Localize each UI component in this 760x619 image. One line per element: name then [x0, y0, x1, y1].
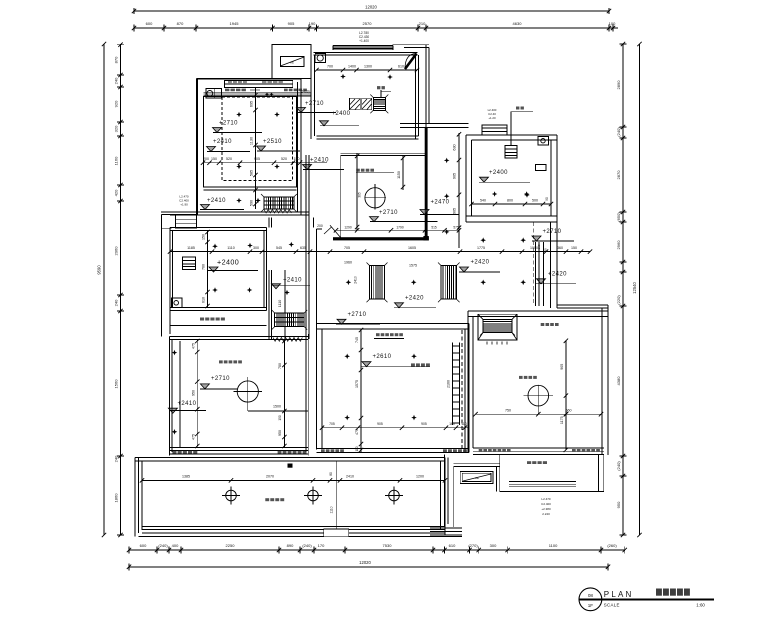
svg-text:1500: 1500 [273, 405, 281, 409]
svg-text:+1.20: +1.20 [488, 116, 496, 120]
svg-text:300: 300 [490, 543, 497, 548]
bottom-right window band [430, 527, 462, 529]
hob label + leader [377, 86, 380, 89]
dim line right overall [639, 44, 641, 535]
wall kitchen bottom [317, 135, 419, 137]
vent unit with diagonal [280, 57, 304, 67]
master room label [519, 376, 523, 379]
bath light markers [492, 191, 498, 197]
svg-text:1560: 1560 [114, 379, 119, 389]
svg-text:1:60: 1:60 [696, 602, 705, 607]
dim line top segments [134, 27, 618, 29]
svg-text:+2410: +2410 [207, 198, 226, 204]
master bottom labels [479, 449, 483, 452]
svg-text:1160: 1160 [114, 156, 119, 165]
svg-text:12020: 12020 [365, 5, 377, 10]
svg-text:745: 745 [355, 337, 359, 343]
master AC label [541, 323, 545, 326]
balcony bottom window [142, 526, 445, 528]
study walls [169, 228, 171, 335]
balcony2 right wall [597, 455, 599, 492]
corner quarter-arc hatch [405, 54, 417, 70]
svg-text:800: 800 [507, 198, 513, 202]
svg-text:7530: 7530 [383, 543, 393, 548]
dining light markers [344, 354, 350, 360]
svg-text:+2410: +2410 [178, 401, 197, 407]
svg-text:170: 170 [318, 543, 325, 548]
svg-text:1110: 1110 [278, 300, 282, 307]
R1 vertical dim [255, 87, 257, 209]
kitchen dark register [373, 98, 385, 111]
svg-text:1200: 1200 [416, 475, 424, 479]
hall room label [356, 169, 360, 172]
kitchen dim line [317, 69, 418, 71]
svg-text:2.240: 2.240 [542, 512, 550, 516]
svg-text:300: 300 [253, 246, 259, 250]
svg-text:+2400: +2400 [332, 111, 351, 117]
svg-text:SCALE: SCALE [604, 602, 620, 607]
bath walls [465, 135, 467, 222]
AC unit with diagonal [460, 472, 493, 484]
title divider line [579, 598, 714, 600]
bath corner box with circle [538, 137, 549, 145]
balcony right wall [440, 461, 442, 530]
svg-text:1300: 1300 [364, 64, 372, 68]
master AC grille [483, 319, 512, 332]
hall light markers column [444, 158, 450, 164]
svg-text:1575: 1575 [355, 380, 359, 388]
master AC grille box [478, 314, 517, 340]
svg-text:475: 475 [355, 429, 359, 435]
balcony left wall [134, 458, 136, 537]
svg-text:2870: 2870 [616, 170, 621, 180]
bath flue pipe [510, 112, 512, 145]
junction wall to bath [400, 123, 469, 125]
wall R1 left [196, 79, 198, 215]
hall vertical dim [458, 133, 460, 248]
svg-text:305: 305 [358, 192, 362, 198]
svg-text:+2710: +2710 [219, 121, 238, 127]
foyer grille left [370, 266, 385, 300]
svg-text:240: 240 [114, 77, 119, 84]
window band R1 top [224, 80, 292, 87]
svg-text:(260): (260) [607, 543, 617, 548]
svg-text:870: 870 [114, 56, 119, 63]
svg-text:(220): (220) [616, 295, 621, 305]
svg-text:110: 110 [461, 422, 467, 426]
master inner lines [476, 413, 602, 415]
svg-text:700: 700 [327, 64, 333, 68]
svg-text:+2470: +2470 [431, 200, 450, 206]
bath dim line [472, 203, 552, 205]
R1 horizontal dim [203, 162, 327, 164]
svg-text:+2710: +2710 [543, 229, 562, 235]
dim line top overall [134, 10, 609, 12]
svg-text:475: 475 [191, 434, 195, 440]
balcony door stop [288, 464, 293, 468]
living light markers [172, 350, 178, 356]
kitchen light markers [340, 74, 346, 80]
hall lower dim line [336, 229, 459, 231]
svg-text:905: 905 [453, 208, 457, 214]
svg-text:905: 905 [288, 21, 295, 26]
dining bottom wall [317, 447, 470, 449]
balcony lights [226, 490, 237, 501]
hall long dim line [170, 251, 590, 253]
master top wall [468, 310, 608, 312]
hall ceiling fan [365, 188, 385, 208]
svg-text:545: 545 [276, 246, 282, 250]
title chinese name [656, 589, 690, 596]
hall vdim 1150 [402, 155, 404, 190]
R1 grille zigzag [264, 210, 291, 214]
window band kitchen top [333, 44, 393, 46]
R1 grille [264, 197, 294, 209]
svg-text:320: 320 [114, 125, 119, 132]
svg-text:575: 575 [453, 225, 459, 229]
entry steps box [176, 215, 197, 228]
svg-text:1945: 1945 [230, 21, 240, 26]
corridor stair grille [275, 313, 305, 327]
corridor right walls [550, 222, 552, 308]
svg-text:560: 560 [566, 409, 572, 413]
R1 dashed ceiling rect [222, 97, 293, 181]
svg-text:+2420: +2420 [405, 295, 424, 301]
R1 light markers [236, 112, 242, 118]
balcony2 sliding door label [527, 461, 531, 464]
svg-text:210: 210 [419, 21, 426, 26]
entry door [317, 228, 323, 230]
wall R1 top [196, 78, 301, 80]
svg-text:+2400: +2400 [489, 170, 508, 176]
svg-text:110: 110 [355, 446, 359, 451]
svg-text:12020: 12020 [359, 560, 371, 565]
svg-text:AE: AE [475, 476, 479, 480]
svg-text:(270): (270) [468, 543, 478, 548]
svg-text:1110: 1110 [227, 246, 234, 250]
svg-text:950: 950 [278, 430, 282, 436]
balcony label [265, 498, 269, 501]
study corridor label [200, 318, 204, 321]
svg-text:630: 630 [453, 144, 457, 150]
thick wall foot [423, 236, 428, 240]
svg-text:1110: 1110 [330, 506, 334, 513]
svg-text:1775: 1775 [477, 246, 485, 250]
svg-text:(2400): (2400) [300, 90, 310, 94]
living walls [169, 337, 171, 456]
dim line left segments [120, 44, 122, 535]
balcony mid line [335, 461, 337, 529]
svg-text:750: 750 [505, 409, 511, 413]
svg-text:1100: 1100 [549, 543, 558, 548]
R1 curtain box strip [204, 93, 312, 96]
R1 corner box with circle [206, 88, 222, 98]
bath exhaust fan box [505, 146, 517, 159]
svg-text:2570: 2570 [363, 21, 373, 26]
svg-text:1290: 1290 [344, 225, 352, 229]
svg-text:150: 150 [571, 246, 577, 250]
kitchen corner box with circle [315, 53, 325, 62]
svg-text:9590: 9590 [97, 265, 102, 275]
svg-text:+2410: +2410 [283, 278, 302, 284]
living room label [219, 360, 223, 363]
svg-text:905: 905 [377, 422, 383, 426]
master grille tick row [486, 342, 488, 345]
svg-text:(650): (650) [616, 212, 621, 222]
svg-text:150: 150 [278, 415, 282, 421]
foyer grille right [441, 266, 457, 300]
flue label [516, 107, 519, 110]
svg-text:240: 240 [114, 455, 119, 462]
dim line right segments [622, 44, 624, 535]
svg-text:+2400: +2400 [217, 258, 239, 267]
bath window top [482, 125, 507, 135]
svg-text:(240): (240) [158, 543, 168, 548]
svg-text:2410: 2410 [354, 276, 358, 284]
hall dim marker [289, 242, 295, 248]
svg-text:1860: 1860 [114, 493, 119, 503]
svg-text:515: 515 [431, 225, 437, 229]
svg-text:160: 160 [537, 244, 541, 249]
svg-text:2890: 2890 [616, 80, 621, 90]
svg-text:1F: 1F [588, 603, 594, 608]
svg-text:(240): (240) [616, 127, 621, 137]
svg-text:PLAN: PLAN [604, 590, 634, 599]
svg-text:160: 160 [449, 422, 455, 426]
svg-text:C2.400: C2.400 [541, 502, 551, 506]
svg-text:420: 420 [114, 189, 119, 196]
svg-text:AE: AE [290, 61, 294, 65]
svg-text:(240): (240) [616, 461, 621, 471]
svg-text:905: 905 [560, 364, 564, 370]
dining bottom labels [321, 449, 325, 452]
dim line left overall [103, 44, 105, 535]
dining walls [316, 229, 318, 450]
svg-text:610: 610 [449, 543, 456, 548]
study vertical dim [207, 231, 209, 308]
svg-text:200: 200 [317, 224, 323, 228]
balcony top wall [135, 457, 445, 459]
living dim 1500 line [248, 410, 308, 412]
svg-text:610: 610 [202, 297, 206, 303]
svg-text:L2.470: L2.470 [541, 497, 551, 501]
study corridor strip [170, 325, 266, 327]
study radiator box [183, 257, 196, 270]
foyer top wall piece thick [333, 237, 429, 240]
corridor stair zigzag [273, 338, 302, 342]
master walls [467, 311, 469, 452]
svg-text:520: 520 [226, 157, 232, 161]
svg-text:610: 610 [398, 64, 404, 68]
svg-text:150: 150 [202, 234, 206, 240]
svg-text:600: 600 [140, 543, 147, 548]
svg-text:905: 905 [254, 157, 260, 161]
svg-text:100: 100 [609, 21, 616, 26]
svg-text:540: 540 [480, 198, 486, 202]
svg-text:2960: 2960 [616, 240, 621, 250]
svg-text:475: 475 [191, 343, 195, 349]
title circle [579, 588, 602, 611]
R1 inner ceiling edge [204, 96, 297, 187]
svg-text:1575: 1575 [409, 264, 417, 268]
svg-text:635: 635 [300, 246, 306, 250]
R1 curtain label [225, 89, 229, 92]
svg-text:08: 08 [588, 593, 594, 598]
svg-text:905: 905 [421, 422, 427, 426]
svg-text:1175: 1175 [560, 416, 564, 424]
svg-text:950: 950 [616, 501, 621, 508]
svg-text:2250: 2250 [226, 543, 236, 548]
svg-text:760: 760 [202, 264, 206, 270]
dining top wall [317, 322, 470, 324]
svg-text:+2.380: +2.380 [541, 507, 551, 511]
shaft box [272, 45, 311, 79]
svg-text:4630: 4630 [513, 21, 523, 26]
balcony2 bottom band [509, 481, 576, 483]
building outer wall top-right corner [425, 45, 427, 128]
svg-text:1150: 1150 [397, 171, 401, 179]
svg-text:360: 360 [557, 246, 563, 250]
svg-text:1790: 1790 [396, 225, 404, 229]
svg-text:705: 705 [329, 422, 335, 426]
svg-text:+2510: +2510 [263, 139, 282, 145]
study corner box with circle [172, 298, 182, 308]
living bottom labels [172, 451, 176, 454]
svg-text:950: 950 [191, 390, 195, 396]
wall kitchen left [310, 45, 312, 139]
svg-text:2070: 2070 [266, 475, 274, 479]
entry hall soffit edge [341, 152, 425, 154]
dining screen [452, 343, 454, 425]
svg-text:2060: 2060 [114, 246, 119, 256]
svg-text:2160: 2160 [447, 380, 451, 388]
svg-text:590: 590 [250, 200, 254, 206]
svg-text:+2610: +2610 [373, 354, 392, 360]
svg-text:+1.90: +1.90 [180, 203, 188, 207]
svg-text:1960: 1960 [344, 261, 352, 265]
thick wall hall-left [425, 128, 428, 238]
svg-text:905: 905 [453, 173, 457, 179]
living bottom wall [170, 447, 309, 449]
step-out wall to master [557, 304, 608, 306]
entry step walls [161, 214, 197, 216]
corridor walls [268, 218, 270, 228]
dining bottom dim [322, 427, 469, 429]
small room walls [444, 455, 446, 528]
svg-text:+2710: +2710 [211, 376, 230, 382]
svg-text:600: 600 [146, 21, 153, 26]
svg-text:500: 500 [532, 198, 538, 202]
duct label + leader [376, 333, 380, 336]
svg-text:705: 705 [344, 246, 350, 250]
svg-text:+2410: +2410 [310, 158, 329, 164]
kitchen hob hatch cells [350, 98, 361, 110]
wall R1 right [297, 82, 299, 212]
living ceiling fan [237, 381, 258, 402]
master ceiling fan [528, 385, 549, 406]
balcony dim line [142, 479, 445, 481]
svg-text:+2710: +2710 [379, 210, 398, 216]
svg-text:+2710: +2710 [348, 312, 367, 318]
svg-text:4380: 4380 [616, 376, 621, 386]
svg-text:90: 90 [544, 248, 548, 252]
svg-text:+2420: +2420 [471, 260, 490, 266]
svg-text:1385: 1385 [182, 475, 190, 479]
svg-text:80: 80 [329, 472, 333, 476]
dim line bottom overall [129, 566, 608, 568]
living vertical dim right [283, 340, 285, 448]
balcony threshold [324, 529, 349, 537]
svg-text:150: 150 [211, 157, 217, 161]
bath wall stub rect [536, 164, 547, 170]
corridor marker [284, 290, 290, 296]
svg-text:+2410: +2410 [213, 139, 232, 145]
svg-text:(240): (240) [302, 543, 312, 548]
svg-text:920: 920 [114, 100, 119, 107]
dining dashed line [461, 330, 463, 448]
svg-text:585: 585 [250, 170, 254, 176]
dining vertical dim [360, 329, 362, 452]
wall R1 bottom [161, 211, 309, 213]
svg-text:190: 190 [309, 21, 316, 26]
svg-text:520: 520 [281, 157, 287, 161]
corridor right dashed line [533, 222, 535, 304]
study light markers [212, 244, 218, 250]
entry hall vdim [356, 153, 358, 230]
svg-text:1400: 1400 [348, 64, 356, 68]
living vertical dim left [196, 340, 198, 448]
svg-text:695: 695 [250, 101, 254, 107]
svg-text:90: 90 [545, 197, 549, 201]
dining room label [411, 363, 415, 366]
wall kitchen top [314, 52, 418, 54]
svg-text:1185: 1185 [187, 246, 195, 250]
svg-text:870: 870 [177, 21, 184, 26]
wall kitchen right [415, 55, 417, 139]
svg-text:240: 240 [114, 299, 119, 306]
svg-text:150: 150 [294, 157, 300, 161]
svg-text:780: 780 [278, 363, 282, 369]
svg-text:1605: 1605 [408, 246, 416, 250]
svg-text:2410: 2410 [346, 475, 354, 479]
master bottom wall [473, 447, 604, 449]
svg-text:12540: 12540 [632, 282, 637, 294]
svg-text:200: 200 [203, 157, 209, 161]
svg-text:400: 400 [172, 543, 179, 548]
svg-text:1130: 1130 [250, 137, 254, 145]
dim line bottom segments [129, 549, 625, 551]
svg-text:890: 890 [287, 543, 294, 548]
svg-text:+1.400: +1.400 [359, 39, 369, 43]
foyer light markers [480, 237, 486, 243]
